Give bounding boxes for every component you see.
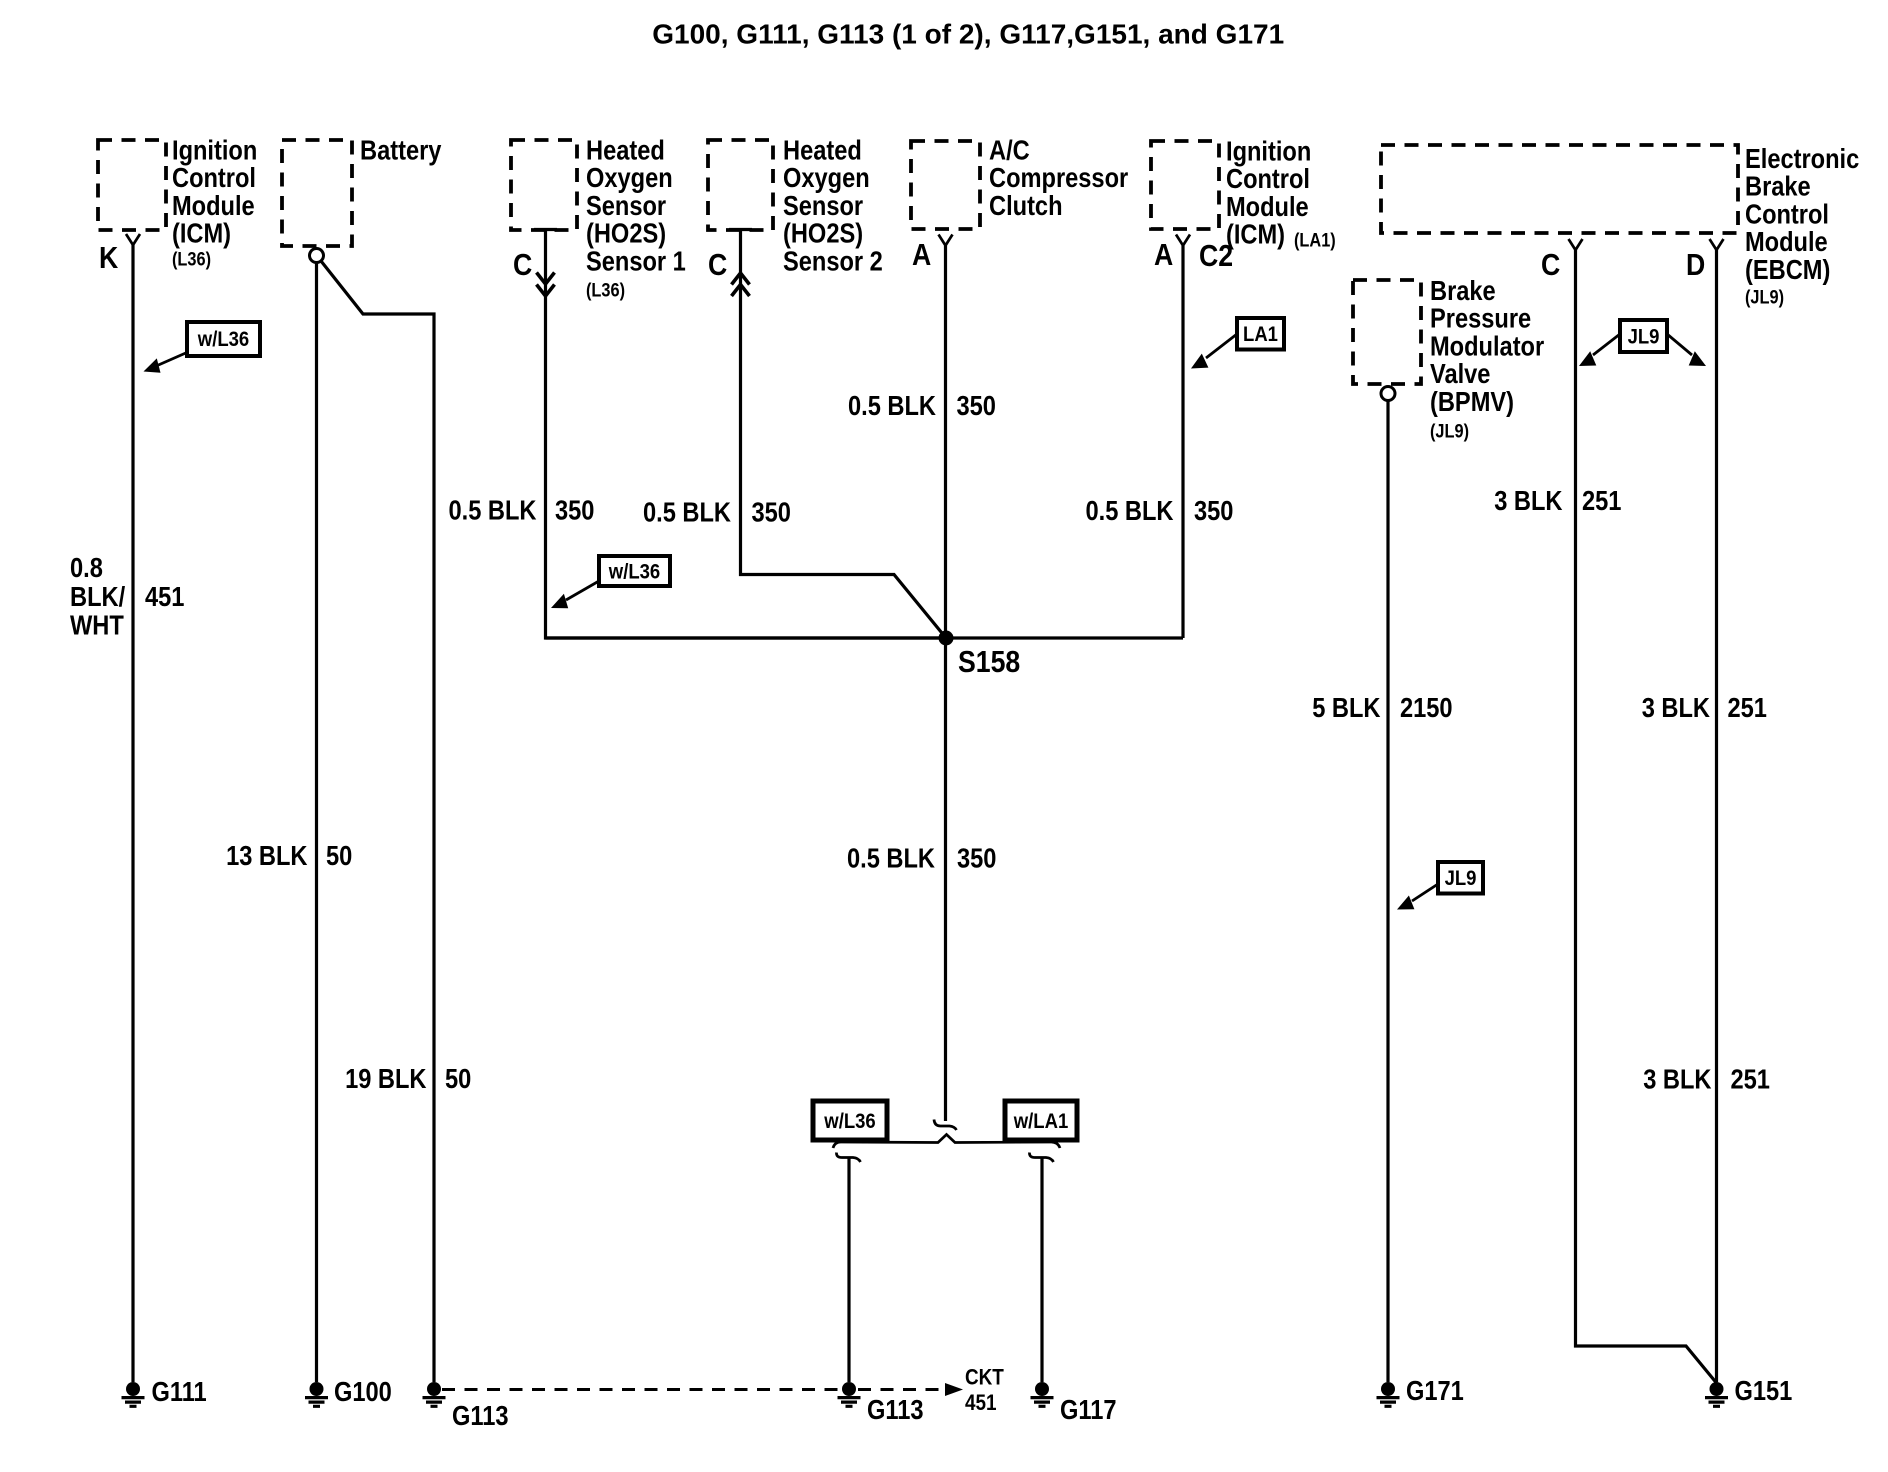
sensor2 double chevron up (732, 273, 750, 296)
arrowhead to CKT 451 (945, 1383, 963, 1396)
svg-text:C: C (1541, 248, 1560, 282)
svg-text:w/L36: w/L36 (197, 328, 249, 352)
svg-text:5 BLK: 5 BLK (1312, 694, 1381, 724)
ground G151 (1705, 1377, 1792, 1407)
wire label 0.8 BLK/WHT (70, 553, 125, 641)
A/C compressor clutch box (911, 136, 1128, 229)
sensor2 pin T-bar (729, 228, 752, 231)
svg-text:451: 451 (965, 1391, 997, 1416)
wire splice to G113 right (847, 1158, 850, 1383)
wire label 3 BLK / 251 middle (1642, 694, 1767, 724)
svg-text:(HO2S): (HO2S) (586, 219, 666, 249)
svg-text:(ICM): (ICM) (1226, 220, 1285, 250)
svg-text:(LA1): (LA1) (1294, 229, 1336, 250)
heated oxygen sensor 1 box (511, 136, 686, 301)
svg-text:Heated: Heated (783, 136, 862, 166)
svg-text:Sensor 2: Sensor 2 (783, 247, 883, 277)
svg-text:Sensor: Sensor (586, 191, 666, 221)
svg-text:251: 251 (1728, 694, 1767, 724)
wire label 3 BLK / 251 upper (1494, 487, 1621, 517)
svg-text:(ICM): (ICM) (172, 219, 231, 249)
arrow from JL9 box to D wire (1667, 334, 1706, 366)
heated oxygen sensor 2 box (708, 136, 883, 277)
svg-text:Control: Control (172, 164, 256, 194)
svg-text:WHT: WHT (70, 611, 124, 641)
ground G100 (305, 1377, 392, 1407)
svg-text:Pressure: Pressure (1430, 304, 1531, 334)
svg-text:(JL9): (JL9) (1745, 286, 1784, 307)
wire label 3 BLK / 251 lower (1643, 1065, 1770, 1095)
svg-text:Oxygen: Oxygen (783, 164, 870, 194)
ICM LA1 pin connector fork (1176, 235, 1190, 246)
svg-text:C: C (513, 248, 532, 282)
svg-text:G117: G117 (1060, 1395, 1117, 1425)
ground G113 right (838, 1382, 924, 1425)
wire label 0.5 BLK / 350 ICM LA1 (1086, 496, 1234, 526)
wire battery to G113 left (321, 261, 434, 1382)
svg-text:350: 350 (1194, 496, 1233, 526)
left sub-wire hook (836, 1153, 860, 1163)
svg-text:G113: G113 (867, 1395, 924, 1425)
svg-text:Modulator: Modulator (1430, 332, 1544, 362)
svg-text:w/L36: w/L36 (608, 560, 660, 584)
ground G111 (122, 1377, 207, 1407)
svg-text:(EBCM): (EBCM) (1745, 255, 1830, 285)
svg-text:(JL9): (JL9) (1430, 420, 1469, 441)
wire label 0.5 BLK / 350 sensor1 (449, 496, 595, 526)
wire label 13 BLK / 50 (226, 841, 352, 871)
CKT 451 label (965, 1365, 1004, 1415)
battery ring terminal (310, 249, 324, 263)
arrow from JL9 middle box to BPMV wire (1397, 884, 1438, 910)
arrow from w/L36 box to K wire (144, 352, 189, 373)
svg-text:LA1: LA1 (1243, 323, 1278, 347)
EBCM pin C connector fork (1569, 239, 1583, 250)
wire EBCM C down, right, diagonal to G151 (1576, 250, 1717, 1383)
right sub-wire hook (1029, 1153, 1053, 1163)
svg-text:G171: G171 (1406, 1377, 1464, 1407)
svg-text:13 BLK: 13 BLK (226, 841, 308, 871)
svg-text:K: K (99, 241, 118, 275)
svg-text:(L36): (L36) (172, 248, 211, 269)
svg-text:0.5 BLK: 0.5 BLK (1086, 496, 1174, 526)
EBCM pin D connector fork (1710, 239, 1724, 250)
svg-text:0.5 BLK: 0.5 BLK (848, 391, 936, 421)
svg-text:Ignition: Ignition (1226, 137, 1311, 167)
svg-text:3 BLK: 3 BLK (1494, 487, 1563, 517)
svg-text:A: A (912, 238, 931, 272)
JL9 label box middle (1438, 862, 1483, 894)
wire sensor1 down and right to S158 (546, 230, 947, 639)
dashed link G113 to CKT 451 arrow (858, 1388, 944, 1391)
svg-text:251: 251 (1582, 487, 1621, 517)
wire sensor2 down, right, diagonal to S158 (741, 230, 947, 639)
svg-text:Module: Module (1745, 228, 1828, 258)
svg-text:350: 350 (555, 496, 594, 526)
svg-text:JL9: JL9 (1628, 325, 1660, 349)
wire splice to G117 (1040, 1158, 1043, 1383)
svg-text:A/C: A/C (989, 136, 1030, 166)
arrow from LA1 box to wire (1191, 334, 1237, 369)
wire label 5 BLK / 2150 (1312, 694, 1452, 724)
w/LA1 label box (1005, 1101, 1077, 1140)
svg-text:G100: G100 (334, 1377, 392, 1407)
svg-text:0.5 BLK: 0.5 BLK (847, 844, 935, 874)
svg-text:19 BLK: 19 BLK (345, 1065, 427, 1095)
svg-text:Control: Control (1226, 165, 1310, 195)
ignition control module (ICM) (LA1) box (1151, 137, 1336, 251)
wire A/C clutch down through S158 to splice break (944, 246, 947, 1122)
arrow from JL9 box to C wire (1579, 334, 1620, 366)
svg-text:Module: Module (172, 191, 255, 221)
LA1 label box (1237, 318, 1284, 350)
svg-text:G111: G111 (152, 1377, 207, 1407)
svg-text:50: 50 (445, 1065, 471, 1095)
svg-text:JL9: JL9 (1445, 867, 1477, 891)
svg-text:D: D (1686, 248, 1705, 282)
ground G117 (1031, 1382, 1117, 1425)
svg-text:S158: S158 (958, 645, 1020, 679)
wire label 0.5 BLK / 350 sensor2 (643, 498, 791, 528)
svg-text:w/LA1: w/LA1 (1013, 1110, 1068, 1134)
svg-text:Module: Module (1226, 192, 1309, 222)
w/L36 label box 2 (599, 556, 670, 586)
svg-text:(HO2S): (HO2S) (783, 219, 863, 249)
svg-text:Oxygen: Oxygen (586, 164, 673, 194)
splice S158 (939, 631, 954, 646)
svg-text:G113: G113 (452, 1402, 509, 1432)
JL9 label box top (1620, 320, 1667, 352)
brake pressure modulator valve (BPMV) box (1353, 276, 1544, 441)
wire EBCM D down to G151 (1715, 250, 1718, 1382)
ground G113 left (423, 1382, 509, 1432)
splice spread bracket (833, 1135, 1060, 1149)
svg-text:Sensor 1: Sensor 1 (586, 247, 686, 277)
svg-text:G100, G111, G113 (1 of 2), G11: G100, G111, G113 (1 of 2), G117,G151, an… (652, 19, 1284, 50)
sensor1 double chevron down (537, 273, 555, 297)
svg-text:350: 350 (752, 498, 791, 528)
wire label 19 BLK / 50 (345, 1065, 471, 1095)
w/L36 label box 1 (187, 322, 260, 356)
svg-text:G151: G151 (1735, 1377, 1793, 1407)
sensor1 pin T-bar (534, 228, 557, 231)
svg-text:w/L36: w/L36 (823, 1110, 875, 1134)
svg-text:Compressor: Compressor (989, 164, 1128, 194)
wire label 0.5 BLK / 350 A/C upper (848, 391, 996, 421)
svg-text:C2: C2 (1199, 239, 1233, 273)
svg-text:Valve: Valve (1430, 360, 1490, 390)
svg-text:Battery: Battery (360, 136, 442, 166)
svg-text:Electronic: Electronic (1745, 144, 1859, 174)
svg-text:0.5 BLK: 0.5 BLK (449, 496, 537, 526)
wire ICM LA1 down to bus (1181, 246, 1184, 639)
svg-text:350: 350 (957, 844, 996, 874)
svg-text:451: 451 (145, 582, 184, 612)
battery box (282, 136, 442, 246)
svg-text:Brake: Brake (1745, 172, 1811, 202)
wire label 0.5 BLK / 350 below S158 (847, 844, 996, 874)
electronic brake control module (EBCM) box (1381, 144, 1859, 307)
svg-text:Clutch: Clutch (989, 191, 1063, 221)
ignition control module (ICM) (L36) box (98, 136, 257, 270)
svg-text:Control: Control (1745, 200, 1829, 230)
A/C pin connector fork (939, 235, 953, 246)
svg-text:50: 50 (326, 841, 352, 871)
wire BPMV to G171 (1386, 401, 1389, 1383)
svg-text:(L36): (L36) (586, 279, 625, 300)
svg-text:A: A (1154, 238, 1173, 272)
wire battery to G100 (315, 263, 318, 1382)
svg-text:BLK/: BLK/ (70, 582, 125, 612)
wire break hook at end of S158 wire (934, 1120, 957, 1131)
svg-text:Ignition: Ignition (172, 136, 257, 166)
svg-text:3 BLK: 3 BLK (1642, 694, 1711, 724)
svg-text:2150: 2150 (1400, 694, 1453, 724)
svg-text:Sensor: Sensor (783, 191, 863, 221)
svg-text:CKT: CKT (965, 1365, 1004, 1390)
arrow from w/L36 box 2 to sensor1 wire (551, 581, 599, 608)
svg-text:251: 251 (1731, 1065, 1770, 1095)
w/L36 label box 3 (813, 1101, 887, 1140)
svg-text:C: C (708, 248, 727, 282)
svg-text:Brake: Brake (1430, 276, 1496, 306)
svg-text:0.8: 0.8 (70, 553, 103, 583)
dashed link G113 to G113 (442, 1388, 841, 1391)
ground bus wire through S158 (546, 636, 1184, 639)
svg-text:350: 350 (957, 391, 996, 421)
wire ICM K to G111 (131, 245, 134, 1382)
BPMV ring terminal (1381, 387, 1395, 401)
ground G171 (1377, 1377, 1464, 1407)
pin K connector fork (126, 234, 140, 245)
svg-text:0.5 BLK: 0.5 BLK (643, 498, 731, 528)
svg-text:Heated: Heated (586, 136, 665, 166)
svg-text:3 BLK: 3 BLK (1643, 1065, 1712, 1095)
svg-text:(BPMV): (BPMV) (1430, 387, 1514, 417)
